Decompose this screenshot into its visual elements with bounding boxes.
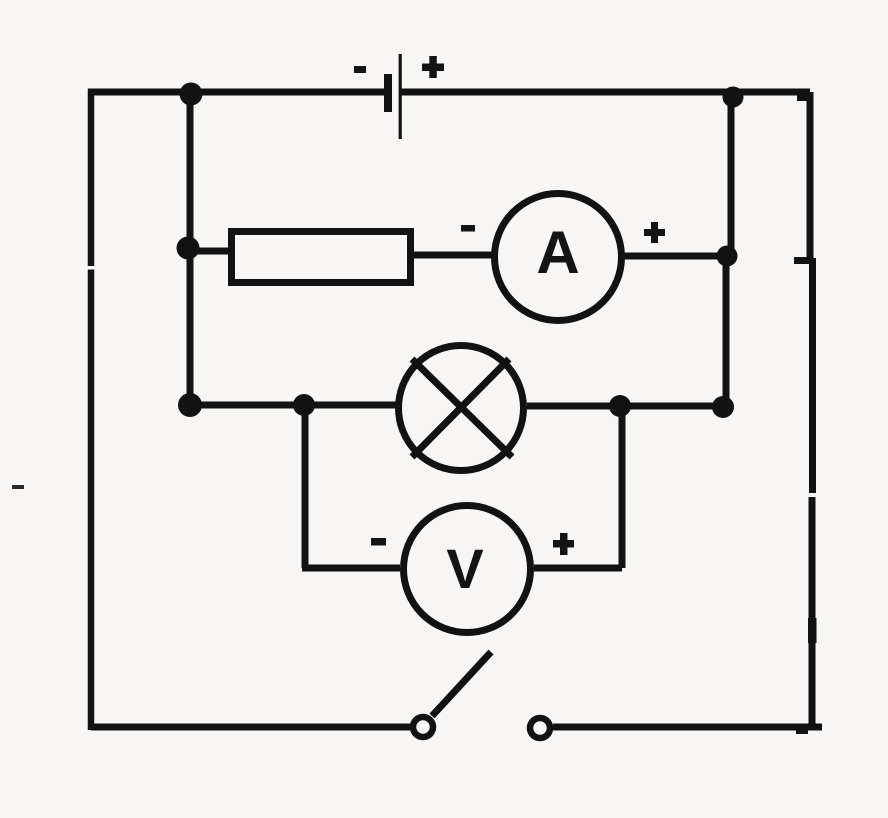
voltmeter plus label [553, 533, 574, 555]
voltmeter U2 circle [404, 506, 531, 633]
node: lamp-row junction at voltmeter tap (right) [609, 395, 631, 417]
ammeter plus label [644, 222, 665, 243]
lamp L1 circle [399, 346, 524, 471]
node: resistor-row left junction [177, 237, 200, 260]
battery minus label [354, 66, 366, 73]
wire: voltmeter right horizontal [534, 565, 622, 572]
wire: vertical from ammeter junction down to lamp row [723, 256, 730, 407]
wire: bottom rail right segment [553, 724, 822, 731]
wire: bottom-right corner overlap nub [796, 728, 808, 734]
battery B1 positive plate (long thin) [399, 54, 402, 139]
wire: right border jog tick [794, 257, 810, 264]
node: top-right junction [723, 87, 744, 108]
wire: ammeter to right junction [624, 253, 727, 260]
wire: vertical from top-right junction down to ammeter junction [728, 97, 735, 256]
wire: voltmeter tap left vertical [302, 405, 309, 568]
wire: bottom rail left segment [91, 724, 410, 731]
battery B1 negative plate (short thick) [384, 74, 392, 112]
wire: right border thick overlap segment [808, 618, 817, 643]
node: lamp-row right junction [712, 396, 734, 418]
switch S1 left terminal [413, 717, 433, 737]
wire: right border vertical (middle) [809, 258, 816, 493]
stray mark: small dash at left edge [12, 485, 24, 489]
svg-text:A: A [536, 219, 579, 286]
lamp L1 cross diagonal 2 [412, 359, 509, 457]
voltmeter minus label [371, 538, 386, 546]
wire: voltmeter left horizontal [302, 565, 400, 572]
wire: voltmeter tap right vertical [619, 407, 626, 568]
ammeter U1 circle [495, 194, 622, 321]
wire: lamp row right segment [527, 403, 723, 410]
wire: inner-left vertical from top junction to lamp row [187, 93, 194, 405]
wire: top rail left segment (battery negative side) [91, 89, 386, 96]
wire: left border vertical (upper) [88, 89, 95, 267]
wire: top rail right segment (battery positive side) [401, 89, 810, 96]
battery plus label [422, 56, 444, 78]
node: lamp-row junction at voltmeter tap (left) [293, 394, 315, 416]
wire: right border vertical (upper) [807, 92, 814, 258]
ammeter minus label [461, 225, 475, 232]
node: ammeter-right junction [717, 246, 738, 267]
wire: lamp row left segment [190, 402, 396, 409]
wire: right border vertical (lower) [809, 497, 816, 727]
node: lamp-row left corner junction [178, 393, 202, 417]
wire: right border corner nub [797, 94, 811, 101]
wire: left border vertical (lower) [88, 270, 95, 731]
node: top-left junction [180, 83, 203, 106]
wire: resistor to ammeter [411, 252, 493, 259]
lamp L1 cross diagonal 1 [412, 359, 512, 457]
wire: junction to resistor [188, 248, 231, 255]
switch S1 right terminal [530, 718, 550, 738]
switch S1 lever [432, 652, 491, 716]
resistor R1 [232, 232, 411, 283]
svg-text:V: V [446, 537, 483, 600]
